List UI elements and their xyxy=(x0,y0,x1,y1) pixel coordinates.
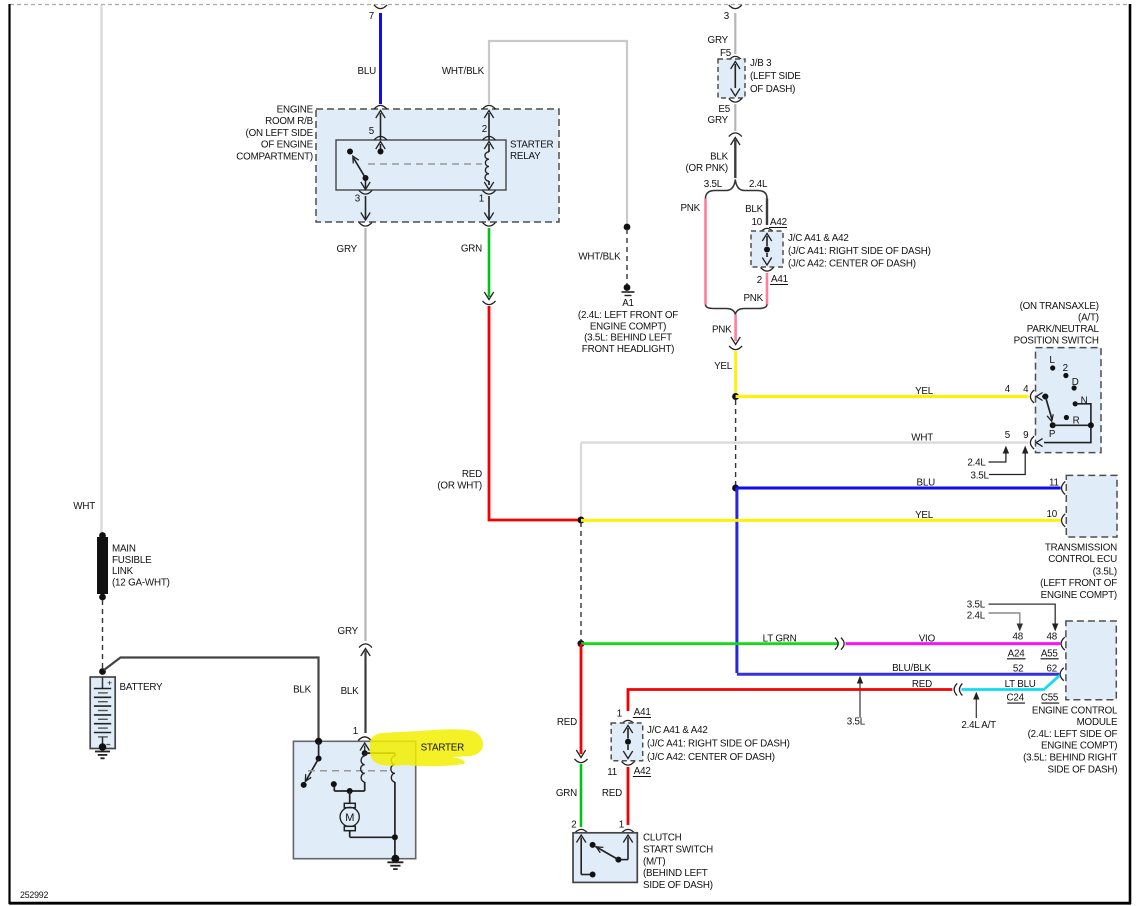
svg-text:STARTER: STARTER xyxy=(510,140,554,151)
svg-text:PNK: PNK xyxy=(743,293,763,304)
svg-text:1: 1 xyxy=(479,194,484,205)
svg-text:RELAY: RELAY xyxy=(510,151,541,162)
svg-text:ENGINE COMPT): ENGINE COMPT) xyxy=(1041,590,1117,601)
pin 11 A42 of J/C lower xyxy=(622,761,635,765)
svg-text:2: 2 xyxy=(482,124,487,135)
svg-text:(3.5L: BEHIND LEFT: (3.5L: BEHIND LEFT xyxy=(584,333,672,344)
svg-text:TRANSMISSION: TRANSMISSION xyxy=(1045,543,1117,554)
split brace 3.5L / 2.4L xyxy=(706,180,768,199)
svg-text:STARTER: STARTER xyxy=(421,743,465,754)
relay mechanical link dashed xyxy=(368,163,482,165)
wire VIO horizontal to ECM pin 48 xyxy=(846,642,1061,645)
junction block J/B 3 xyxy=(718,59,745,98)
svg-text:ROOM R/B: ROOM R/B xyxy=(265,116,314,127)
relay coil xyxy=(488,149,490,152)
ground battery xyxy=(95,751,110,753)
connector PNK to YEL inline xyxy=(731,337,740,345)
svg-text:BLK: BLK xyxy=(710,152,729,163)
pin 1 of clutch switch xyxy=(623,835,632,843)
svg-text:J/C A41 & A42: J/C A41 & A42 xyxy=(647,725,708,736)
ECU U3 ENGINE CONTROL MODULE box xyxy=(1066,621,1116,700)
svg-text:J/B 3: J/B 3 xyxy=(750,58,772,69)
pin E5 of J/B 3 xyxy=(729,98,742,102)
svg-text:(BEHIND LEFT: (BEHIND LEFT xyxy=(643,868,708,879)
park/neutral switch arm xyxy=(1045,397,1052,421)
pin 48 of ECM xyxy=(1061,637,1065,650)
wire PNK 3.5L branch xyxy=(704,199,707,305)
pin 3 of relay xyxy=(365,181,367,189)
svg-text:MAIN: MAIN xyxy=(112,544,136,555)
note arrow 2.4L A/T to LT BLU wire xyxy=(975,694,977,718)
svg-text:C24: C24 xyxy=(1007,693,1025,704)
pin 9 of park/neutral switch xyxy=(1030,436,1034,449)
connector GRY to BLK inline xyxy=(729,133,742,137)
svg-text:(ON TRANSAXLE): (ON TRANSAXLE) xyxy=(1020,301,1099,312)
svg-text:A24: A24 xyxy=(1008,648,1026,659)
park/neutral internal wiring xyxy=(1044,404,1091,443)
svg-text:M: M xyxy=(345,812,354,824)
wire LT BLU to ECM pin 62 xyxy=(962,676,1060,690)
svg-text:START SWITCH: START SWITCH xyxy=(643,844,713,855)
pin 11 of TCU xyxy=(1062,482,1066,495)
junction connector J/C A41 & A42 upper xyxy=(761,228,774,232)
svg-text:3: 3 xyxy=(355,194,361,205)
svg-text:RED: RED xyxy=(462,469,482,480)
connector RED to GRN inline xyxy=(576,750,585,758)
relay switch contacts xyxy=(378,149,384,155)
svg-text:GRY: GRY xyxy=(337,244,358,255)
svg-text:48: 48 xyxy=(1047,631,1058,642)
svg-text:CLUTCH: CLUTCH xyxy=(643,833,682,844)
svg-text:ENGINE CONTROL: ENGINE CONTROL xyxy=(1032,705,1118,716)
svg-text:252992: 252992 xyxy=(20,890,48,900)
svg-text:(J/C A41: RIGHT SIDE OF DASH): (J/C A41: RIGHT SIDE OF DASH) xyxy=(647,739,790,750)
svg-text:2.4L: 2.4L xyxy=(967,610,986,621)
svg-text:J/C A41 & A42: J/C A41 & A42 xyxy=(788,233,849,244)
svg-text:RED: RED xyxy=(602,788,622,799)
svg-text:GRY: GRY xyxy=(338,626,359,637)
svg-text:A41: A41 xyxy=(634,707,651,718)
svg-text:MODULE: MODULE xyxy=(1077,717,1118,728)
junction dot YEL xyxy=(732,393,739,400)
wire LT GRN horizontal xyxy=(581,642,839,645)
svg-text:5: 5 xyxy=(369,126,375,137)
svg-text:48: 48 xyxy=(1013,631,1024,642)
svg-text:L: L xyxy=(1049,355,1055,366)
ground starter xyxy=(391,855,399,863)
svg-text:GRN: GRN xyxy=(461,244,482,255)
fusible link MAIN FUSIBLE LINK (12 GA-WHT) xyxy=(99,532,106,539)
svg-text:COMPARTMENT): COMPARTMENT) xyxy=(236,151,313,162)
svg-text:9: 9 xyxy=(1023,430,1028,441)
svg-text:WHT: WHT xyxy=(73,501,95,512)
svg-text:ENGINE COMPT): ENGINE COMPT) xyxy=(1041,741,1117,752)
svg-text:1: 1 xyxy=(617,709,622,720)
svg-text:2.4L: 2.4L xyxy=(967,457,986,468)
wire BLU/BLK horizontal to ECM pin 62 xyxy=(737,673,1059,676)
svg-text:(J/C A42: CENTER OF DASH): (J/C A42: CENTER OF DASH) xyxy=(788,259,916,270)
svg-text:BLK: BLK xyxy=(745,204,764,215)
svg-text:2: 2 xyxy=(571,820,576,831)
svg-text:LT GRN: LT GRN xyxy=(763,633,797,644)
connector LT GRN to VIO inline xyxy=(835,638,838,650)
svg-text:(2.4L: LEFT SIDE OF: (2.4L: LEFT SIDE OF xyxy=(1028,729,1118,740)
svg-text:BLK: BLK xyxy=(293,684,312,695)
pin 2 of clutch switch xyxy=(577,835,586,843)
svg-text:ENGINE COMPT): ENGINE COMPT) xyxy=(590,321,666,332)
svg-text:BLU: BLU xyxy=(358,66,377,77)
wire dashed link down to LT GRN junction xyxy=(580,522,582,641)
clutch switch arm xyxy=(615,857,621,863)
svg-text:2: 2 xyxy=(1063,363,1068,374)
wire WHT/BLK from relay pin2 up and over to A1 xyxy=(489,41,627,226)
merge brace xyxy=(706,305,768,315)
svg-text:GRY: GRY xyxy=(708,35,729,46)
wire BLU vertical down xyxy=(735,488,738,673)
svg-text:VIO: VIO xyxy=(919,633,936,644)
svg-text:3.5L: 3.5L xyxy=(967,600,986,611)
svg-text:2: 2 xyxy=(757,275,762,286)
svg-text:P: P xyxy=(1049,429,1056,440)
svg-text:WHT/BLK: WHT/BLK xyxy=(578,252,621,263)
svg-text:(12 GA-WHT): (12 GA-WHT) xyxy=(112,577,170,588)
ECU U2 TRANSMISSION CONTROL ECU box xyxy=(1066,475,1117,537)
wire RED down and right to junction xyxy=(489,306,581,520)
svg-text:1: 1 xyxy=(353,726,358,737)
svg-text:PNK: PNK xyxy=(680,203,700,214)
svg-text:10: 10 xyxy=(752,217,763,228)
svg-text:YEL: YEL xyxy=(714,361,733,372)
svg-text:4: 4 xyxy=(1005,384,1011,395)
svg-text:RED: RED xyxy=(912,679,932,690)
svg-text:SIDE OF DASH): SIDE OF DASH) xyxy=(1048,764,1118,775)
svg-text:2.4L: 2.4L xyxy=(749,179,768,190)
wire GRY top xyxy=(734,13,736,54)
junction dot BLU xyxy=(732,485,739,492)
svg-text:POSITION SWITCH: POSITION SWITCH xyxy=(1014,336,1099,347)
svg-text:2.4L A/T: 2.4L A/T xyxy=(961,720,996,731)
wire GRN relay pin1 down xyxy=(488,228,491,297)
svg-text:(M/T): (M/T) xyxy=(643,856,665,867)
svg-text:(3.5L: BEHIND RIGHT: (3.5L: BEHIND RIGHT xyxy=(1023,753,1117,764)
pin 2 A41 xyxy=(761,267,774,271)
svg-text:FRONT HEADLIGHT): FRONT HEADLIGHT) xyxy=(582,344,674,355)
note arrow 3.5L to BLU/BLK wire xyxy=(859,678,861,718)
starter switch xyxy=(315,738,322,745)
svg-text:(OR WHT): (OR WHT) xyxy=(437,481,482,492)
svg-text:OF DASH): OF DASH) xyxy=(750,84,795,95)
relay U1 STARTER RELAY inner box xyxy=(336,140,506,190)
starter hold coil xyxy=(365,752,395,754)
svg-text:3.5L: 3.5L xyxy=(971,470,990,481)
junction connector J/C A41 & A42 lower xyxy=(611,723,643,761)
junction dot starter ground branch xyxy=(392,834,398,840)
svg-text:A55: A55 xyxy=(1041,648,1059,659)
svg-text:52: 52 xyxy=(1013,664,1024,675)
wire BLK 2.4L branch xyxy=(766,199,768,226)
junction dot RED YEL xyxy=(578,517,585,524)
pin 10 of TCU xyxy=(1062,514,1066,527)
svg-text:E5: E5 xyxy=(718,104,730,115)
park/neutral switch contacts L 2 D N R P xyxy=(1042,394,1048,400)
motor M xyxy=(349,791,351,803)
pin 1 of starter connector xyxy=(358,737,371,741)
svg-text:YEL: YEL xyxy=(915,510,934,521)
wire YEL horizontal to park/neutral switch xyxy=(736,395,1029,398)
svg-text:ENGINE: ENGINE xyxy=(277,105,314,116)
battery xyxy=(99,668,106,675)
svg-text:BATTERY: BATTERY xyxy=(120,682,164,693)
svg-text:7: 7 xyxy=(369,11,374,22)
svg-text:11: 11 xyxy=(1049,478,1059,489)
svg-text:BLU/BLK: BLU/BLK xyxy=(892,663,932,674)
wire dashed to ground A1 xyxy=(626,229,628,285)
svg-text:GRY: GRY xyxy=(708,115,729,126)
svg-text:(2.4L: LEFT FRONT OF: (2.4L: LEFT FRONT OF xyxy=(578,310,678,321)
wire BLU horizontal to TCU pin 11 xyxy=(736,487,1061,490)
svg-text:A42: A42 xyxy=(770,217,787,228)
svg-text:A41: A41 xyxy=(771,274,788,285)
svg-text:11: 11 xyxy=(607,767,617,778)
wire RED J/C to clutch switch xyxy=(627,767,630,825)
junction dot motor feed xyxy=(347,788,353,794)
svg-text:(A/T): (A/T) xyxy=(1078,313,1099,324)
note arrow 3.5L to pin 9 xyxy=(989,453,1025,475)
svg-text:(LEFT SIDE: (LEFT SIDE xyxy=(750,71,801,82)
starter mechanical link dashed xyxy=(308,770,392,772)
svg-text:RED: RED xyxy=(557,717,577,728)
pin 52 62 of ECM xyxy=(1060,668,1064,681)
svg-text:N: N xyxy=(1081,396,1088,407)
starter pull-in coil xyxy=(362,750,368,756)
svg-text:CONTROL ECU: CONTROL ECU xyxy=(1048,554,1117,565)
wire PNK below J/C xyxy=(766,273,769,305)
wire YEL horizontal to TCU pin 10 xyxy=(581,519,1061,522)
wire YEL down to junction xyxy=(734,351,737,395)
svg-text:(OR PNK): (OR PNK) xyxy=(686,163,729,174)
svg-text:WHT/BLK: WHT/BLK xyxy=(442,66,485,77)
wire WHT from top to fusible link xyxy=(100,5,102,535)
wire GRN to clutch switch pin 2 xyxy=(580,764,583,827)
svg-text:PARK/NEUTRAL: PARK/NEUTRAL xyxy=(1027,324,1100,335)
svg-text:(3.5L): (3.5L) xyxy=(1093,567,1117,578)
ground A1 xyxy=(624,284,631,291)
starter contact node xyxy=(334,790,364,792)
note arrow 3.5L to pin 48 xyxy=(989,604,1056,628)
node 3 connector at top xyxy=(729,5,742,9)
wire WHT horizontal xyxy=(581,441,1029,443)
wire BLU xyxy=(379,13,382,104)
svg-text:C55: C55 xyxy=(1041,693,1059,704)
svg-text:(J/C A41: RIGHT SIDE OF DASH): (J/C A41: RIGHT SIDE OF DASH) xyxy=(788,246,931,257)
svg-text:LINK: LINK xyxy=(112,566,134,577)
svg-text:10: 10 xyxy=(1047,509,1058,520)
svg-text:GRN: GRN xyxy=(556,788,577,799)
wire PNK merged xyxy=(734,315,737,342)
svg-text:(J/C A42: CENTER OF DASH): (J/C A42: CENTER OF DASH) xyxy=(647,752,775,763)
svg-text:A42: A42 xyxy=(634,766,651,777)
svg-text:SIDE OF DASH): SIDE OF DASH) xyxy=(643,880,713,891)
wire RED horizontal from clutch branch to connector xyxy=(628,690,952,712)
junction block ENGINE ROOM R/B box xyxy=(316,109,559,222)
pin 4 of park/neutral switch xyxy=(1030,390,1034,403)
highlight marker over STARTER xyxy=(370,729,483,766)
wire RED left column down xyxy=(580,644,583,754)
svg-text:BLK: BLK xyxy=(341,686,360,697)
note arrow 2.4L to pin 48 xyxy=(989,613,1020,628)
wire dashed fusible link to battery xyxy=(102,600,104,669)
connector GRN to RED inline xyxy=(484,292,493,300)
svg-text:LT BLU: LT BLU xyxy=(1005,679,1036,690)
starter M1 box xyxy=(293,741,415,858)
connector RED to LT BLU inline xyxy=(954,684,957,696)
junction dot LT GRN xyxy=(578,640,585,647)
svg-text:(ON LEFT SIDE: (ON LEFT SIDE xyxy=(246,128,314,139)
svg-text:WHT: WHT xyxy=(911,433,933,444)
wire BLK battery to starter xyxy=(104,658,319,742)
note arrow 2.4L to pin 5 xyxy=(989,453,1006,462)
wire GRY below J/B 3 xyxy=(734,104,736,131)
pin 1 of relay xyxy=(484,182,493,190)
svg-text:+: + xyxy=(107,678,112,688)
svg-text:5: 5 xyxy=(1005,430,1011,441)
wire dashed link YEL junction down xyxy=(735,400,737,486)
node 7 connector at top xyxy=(374,5,387,9)
svg-text:A1: A1 xyxy=(622,298,634,309)
svg-text:(LEFT FRONT OF: (LEFT FRONT OF xyxy=(1040,578,1117,589)
svg-text:BLU: BLU xyxy=(917,478,936,489)
svg-text:YEL: YEL xyxy=(915,386,934,397)
svg-text:F5: F5 xyxy=(720,48,732,59)
svg-text:62: 62 xyxy=(1047,664,1058,675)
svg-text:OF ENGINE: OF ENGINE xyxy=(261,140,314,151)
junction dot WHT/BLK xyxy=(624,224,631,231)
svg-text:FUSIBLE: FUSIBLE xyxy=(112,555,152,566)
svg-text:4: 4 xyxy=(1023,384,1029,395)
wire BLK (OR PNK) xyxy=(734,140,736,179)
svg-text:1: 1 xyxy=(619,820,624,831)
svg-text:3.5L: 3.5L xyxy=(704,179,723,190)
wire WHT vertical segment xyxy=(580,443,582,518)
svg-text:3.5L: 3.5L xyxy=(847,717,866,728)
pin 2 of relay xyxy=(483,105,496,109)
connector GRY to BLK inline xyxy=(359,644,372,648)
svg-text:PNK: PNK xyxy=(712,325,732,336)
wire BLK to starter pin1 xyxy=(364,651,366,734)
pin 5 of relay xyxy=(374,105,387,109)
svg-text:3: 3 xyxy=(724,11,730,22)
